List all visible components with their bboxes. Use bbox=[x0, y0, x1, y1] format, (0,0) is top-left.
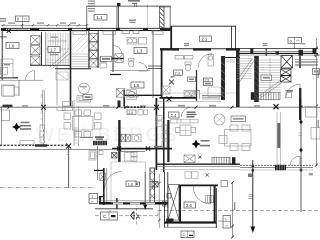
dim line x147 bottom-center bbox=[143, 172, 147, 210]
node X at 276,106 bbox=[274, 104, 279, 109]
sink unit kitchen bbox=[132, 134, 141, 142]
label box 1.5 bbox=[131, 82, 144, 88]
section arrow line x252.5 bbox=[251, 160, 256, 233]
boxes below 2.0 bbox=[138, 110, 148, 116]
label box 2.0 corridor bbox=[127, 110, 136, 115]
window pier 250-253 bbox=[250, 48, 253, 53]
svg-text:2.3: 2.3 bbox=[175, 71, 180, 75]
node X at 68.7,146 bbox=[66, 144, 71, 149]
grid line x301 bbox=[300, 98, 302, 212]
door arc 2.4 entry bbox=[181, 108, 191, 118]
hatched sill seg x35-68 bbox=[35, 144, 47, 146]
main internal wall x70.5 bbox=[70, 28, 72, 106]
window ticks on y107.2 x124-145 bbox=[124, 106, 145, 108]
right wing bottom band tick line bbox=[240, 164, 313, 166]
living bottom wall line3 bbox=[160, 169, 240, 171]
text smudge right wing band bbox=[309, 173, 313, 175]
living bottom wall y164.2 bbox=[157, 163, 240, 165]
right wing bottom band line2 bbox=[240, 167, 313, 169]
label box 1.2 bbox=[101, 56, 112, 61]
X box kitchen right bbox=[152, 182, 158, 188]
stair lower flight treads x237-252 bbox=[237, 59, 252, 79]
couch left room bbox=[1, 68, 8, 75]
bar strip right wing bbox=[277, 112, 281, 166]
left parapet ticked line y145.3 bbox=[0, 144, 68, 146]
svg-text:2.6: 2.6 bbox=[186, 203, 192, 208]
door arc bath top bbox=[198, 54, 212, 68]
bath top line y57.5 bbox=[221, 57, 240, 59]
radiator box on parapet bbox=[20, 141, 34, 145]
window pier 312-316 bbox=[313, 48, 317, 54]
dim line top-left bbox=[1, 24, 87, 26]
door jambs x196-197.5 bbox=[196, 70, 198, 101]
wall top main double bbox=[1, 27, 171, 29]
toilet bath bbox=[185, 62, 191, 71]
corridor wall y95.5 bbox=[125, 94, 161, 96]
label box 1.8 kitchen bbox=[126, 181, 136, 186]
hatched pier x275-286 y165-170 bbox=[275, 165, 286, 170]
label box 2.3 bbox=[174, 70, 183, 75]
small furniture right wing y66 bbox=[313, 69, 320, 75]
svg-text:1.1: 1.1 bbox=[97, 15, 103, 20]
stair right wall x45.8 bbox=[45, 32, 47, 66]
kitchen top wall y148.6 bbox=[112, 148, 172, 150]
stair right wall x299.5 upper bbox=[299, 56, 300, 68]
terrace line ticks bbox=[148, 5, 157, 8]
X box kitchen entry bbox=[100, 173, 106, 181]
label box C2 below room26 bbox=[181, 231, 194, 238]
stair return flight diagonals bbox=[72, 34, 88, 52]
right edge dim line bbox=[316, 38, 318, 166]
ticks x159 bbox=[158, 182, 161, 222]
kitchenette table bbox=[176, 125, 196, 136]
small box kitchen bbox=[99, 151, 103, 155]
stove X pair kitchen bbox=[121, 134, 130, 142]
stair left arrow bbox=[48, 40, 67, 42]
band mullion x266.2 bbox=[265, 48, 267, 56]
stair lower flight cut bbox=[237, 59, 254, 82]
node X top-left wall bbox=[7, 29, 11, 33]
fridge kitchen bbox=[89, 151, 96, 161]
bath wall y58.5 bbox=[110, 58, 124, 60]
bathtub bbox=[208, 87, 221, 97]
dim stack top-center bbox=[88, 1, 95, 12]
dark pier x251 y92-99 bbox=[251, 92, 254, 100]
window pier 300-303 bbox=[299, 50, 304, 56]
tiny text WD right bbox=[286, 90, 293, 92]
divider top tick bbox=[117, 3, 120, 6]
node X at 119,148.5 bbox=[117, 146, 121, 150]
dark parapet bar left bbox=[3, 105, 13, 107]
door arc bath 2.2 bbox=[191, 90, 200, 99]
washbasin pedestal bath bbox=[208, 55, 214, 67]
kitchen inner wall line y201.3 bbox=[99, 200, 168, 202]
living wall x161 y100-120 continues above, wall x167.5-169.5 bbox=[167, 120, 169, 162]
top band window lines bbox=[240, 50, 316, 53]
tiny text 5.07 stair bbox=[287, 91, 293, 92]
wall x236-240 bbox=[236, 49, 240, 107]
wall x19 bbox=[18, 80, 20, 96]
room26 bottom wall bbox=[164, 221, 216, 223]
exterior steps right of X box bbox=[295, 60, 318, 66]
kitchen left wall line x97 bbox=[96, 146, 98, 180]
wall left edge bbox=[1, 28, 3, 80]
room 2.1 top edge bbox=[171, 25, 236, 27]
hatch on stair left wall bbox=[254, 58, 259, 99]
grid drop x68.7 bbox=[68, 146, 70, 188]
node X at 148,148.5 bbox=[146, 146, 150, 150]
kitchen wall x94-96 bbox=[103, 168, 105, 205]
grid marks x301 bbox=[299, 133, 302, 136]
dining table left bbox=[73, 117, 94, 131]
door arc stair hall right bbox=[286, 84, 301, 99]
tiny text under 1.7 bbox=[50, 54, 59, 55]
grid line x43.5 dashed lower bbox=[43, 129, 45, 146]
wall x152 bbox=[152, 31, 154, 99]
LAYER: hatch bbox=[31, 7, 319, 220]
dim ticks x232.5 bbox=[231, 181, 234, 239]
right wing bottom band line3 bbox=[240, 169, 313, 171]
svg-text:2.0: 2.0 bbox=[128, 111, 133, 115]
tiny text pb1 bbox=[184, 43, 189, 46]
stair right wall x299.5 lower bbox=[299, 88, 301, 120]
tiny text FB right bbox=[314, 55, 320, 57]
tiny text ja00 stair left bbox=[51, 37, 58, 38]
label box 2.2 two-row bbox=[204, 78, 213, 86]
washer boxes 1.5 bbox=[127, 90, 137, 100]
svg-text:1.5: 1.5 bbox=[134, 83, 140, 88]
datum text N bbox=[128, 0, 140, 4]
small x mark living bbox=[199, 156, 202, 159]
band lower gray line y55.8 bbox=[240, 55, 316, 57]
stair left flight treads bbox=[48, 33, 68, 65]
dresser2 below left bbox=[14, 87, 19, 95]
kitchen hatch wall x144.8-150 bbox=[150, 168, 155, 204]
stair left mid rail bbox=[46, 48, 70, 50]
room26 right wall bbox=[214, 185, 216, 223]
room26 outer bottom line bbox=[164, 226, 216, 228]
door arc room26 bbox=[193, 186, 210, 204]
node X at 156.4,107.2 bbox=[154, 105, 159, 110]
level star marker center bbox=[192, 140, 211, 149]
shaft X-box column left bbox=[31, 36, 41, 66]
label box vertical left of kitchen wall bbox=[89, 194, 103, 204]
steps below y106 left bbox=[63, 102, 73, 111]
dim ticks top-left bbox=[2, 24, 88, 26]
stair right cut bbox=[259, 80, 281, 99]
svg-text:1.3: 1.3 bbox=[137, 48, 143, 53]
living bottom wall line2 bbox=[157, 165, 240, 167]
kitchen wall jog y196.5 bbox=[99, 196, 105, 198]
tiny text +000 living bbox=[187, 112, 197, 118]
stair right flight treads bbox=[259, 60, 281, 93]
tiny text pb2 bbox=[263, 43, 268, 46]
box with dot kitchen bbox=[135, 182, 140, 186]
node X at 43.5,106 bbox=[41, 105, 46, 110]
level text top-left edge bbox=[0, 18, 7, 38]
bath wall x113 bbox=[112, 31, 114, 73]
wardrobe boxes living left wall bbox=[162, 125, 167, 147]
window sill striped x212-230 bbox=[212, 157, 230, 164]
steps block room26 bbox=[206, 196, 214, 203]
cabinet 1.3 bbox=[139, 38, 147, 45]
shelf rects x156-162 bbox=[157, 116, 162, 127]
door arc kitchen top bbox=[105, 172, 122, 189]
sliding door leaf bbox=[277, 123, 280, 148]
shaft void X room26 bbox=[168, 185, 179, 221]
window striped seg x254-280 y92-100 bbox=[254, 92, 280, 100]
dash-dot line y187.7 bbox=[0, 187, 95, 189]
radiator y107 bbox=[57, 107, 65, 110]
label box 1.9 left bbox=[83, 95, 92, 100]
terrace left boundary x1.5 bbox=[1, 106, 3, 146]
kitchen window sill dark block bbox=[93, 141, 107, 145]
couch right edge bbox=[311, 128, 320, 140]
long line y106 bbox=[0, 106, 320, 108]
text smudge on section line bbox=[248, 174, 252, 178]
door arc corridor bbox=[127, 90, 139, 97]
radiator boxes bath top bbox=[175, 56, 193, 60]
band window lines x179-226 bbox=[179, 49, 226, 50]
terrace edge x74 bbox=[73, 100, 75, 146]
top wall window double lines bbox=[10, 28, 28, 31]
svg-text:▭: ▭ bbox=[91, 200, 94, 204]
svg-text:2.2: 2.2 bbox=[205, 78, 210, 82]
nodes on y106 bbox=[8, 106, 303, 109]
stair left cut line bbox=[50, 51, 70, 69]
wall x57 thin bbox=[56, 66, 58, 106]
wall seg y48-50 left of 2.1 bbox=[160, 48, 171, 50]
bottom wall window gaps bbox=[113, 202, 155, 204]
washbasin unit 1.3 bbox=[127, 38, 137, 45]
terrace column hatch x159-164 bbox=[160, 7, 165, 29]
kitchen closet line x106.5 bbox=[106, 168, 108, 202]
door arc 1.3 bbox=[139, 63, 148, 72]
dim texts above y106 bbox=[22, 105, 260, 107]
tiny text left-mid wall bbox=[4, 64, 10, 65]
label box 2.6 bbox=[184, 202, 196, 208]
tiny box room26 wall bbox=[167, 194, 171, 199]
wall B x156.4 bbox=[156, 98, 158, 170]
datum arrow marks top-center bbox=[134, 4, 136, 8]
big X box right top bbox=[281, 56, 293, 69]
sideboard right top bbox=[306, 107, 318, 118]
kitchen closet wall x116.9 bbox=[116, 198, 118, 209]
section marker A bottom bbox=[131, 212, 141, 222]
LAYER: stairs bbox=[46, 33, 281, 99]
closet corner rect bbox=[56, 72, 68, 80]
dim line x159 room26 left bbox=[158, 174, 160, 228]
grid nodes x301 bbox=[299, 120, 302, 153]
stair left hatch wall x254-259 bbox=[254, 56, 259, 102]
tiny text W bath bbox=[171, 76, 175, 78]
kitchen main wall x118.5-120.5 bbox=[118, 120, 120, 162]
counter kitchen low bbox=[125, 152, 138, 161]
right dim ticks bbox=[315, 47, 318, 167]
room 2.1 right wall double bbox=[232, 26, 236, 49]
tiny text 12b3 bbox=[154, 146, 162, 148]
shower square 2.3 bbox=[162, 86, 170, 94]
dim text 160 rotated bbox=[234, 202, 236, 210]
label box 2.2 bbox=[188, 77, 196, 82]
WD box right bbox=[286, 93, 292, 98]
door arc 1.2-1.3 bbox=[113, 46, 121, 54]
round table right wing bbox=[214, 114, 225, 125]
kitchen lower wall x95 bbox=[99, 196, 101, 204]
round table dim text bbox=[80, 86, 87, 87]
dim line x232.5 bottom bbox=[232, 182, 234, 238]
line y80 left bbox=[0, 79, 43, 81]
grid ticks x43.5 bbox=[41, 95, 43, 125]
corridor wall x123.75 bbox=[123, 90, 125, 106]
shaft wall x41.5 bbox=[41, 32, 43, 66]
tiny text pb right wing bbox=[301, 43, 306, 44]
right dim text bbox=[318, 70, 319, 128]
bath wall y99 bbox=[160, 97, 197, 99]
bath block left wall x161 bbox=[161, 49, 163, 98]
door arc terrace right bbox=[290, 156, 300, 166]
kitchen top wall second line bbox=[119, 150, 145, 152]
label box 12.5 right wing bbox=[231, 116, 246, 122]
door arc left bedroom bbox=[25, 71, 34, 81]
wall y137.5 x80-93 bbox=[80, 137, 93, 139]
dark pier x232.5 y157-164 bbox=[232, 157, 235, 165]
label box 0.5 top-left bbox=[16, 16, 30, 28]
star marker X bath bbox=[169, 80, 174, 85]
svg-text:1: 1 bbox=[91, 195, 93, 199]
small box right of room26 top bbox=[221, 181, 228, 187]
band dark segs x171-236 bbox=[171, 48, 240, 50]
wall y68.5 bbox=[55, 68, 91, 70]
terrace inner vertical x147.6 bbox=[147, 6, 149, 28]
stair left lower lines bbox=[46, 60, 69, 63]
svg-text:◠: ◠ bbox=[296, 38, 300, 43]
terrace 1.1 top edge bbox=[87, 5, 171, 7]
grid line x43.5 upper bbox=[43, 90, 44, 129]
hatch marks kitchen wall x144.8-150 bbox=[150, 170, 155, 199]
shower 1.5 bbox=[116, 89, 125, 98]
box circle room26 wall bbox=[163, 201, 169, 206]
svg-text:1.8: 1.8 bbox=[128, 182, 133, 186]
bed left room bbox=[1, 59, 13, 78]
svg-text:▭: ▭ bbox=[225, 224, 228, 228]
terrace white column x164-170 bbox=[164, 7, 170, 28]
label box 1.1 bbox=[94, 15, 107, 21]
bath window lines y97-99 bbox=[202, 97, 220, 99]
marks on x252.5 bbox=[249, 195, 253, 199]
wall seg y74.5 bbox=[110, 74, 121, 76]
svg-text:C: C bbox=[183, 232, 186, 237]
top band right wing lower line bbox=[236, 53, 318, 55]
svg-text:2.1: 2.1 bbox=[202, 37, 208, 42]
dashed section line y210.5 bbox=[95, 215, 158, 217]
kitchen inner floor outline bbox=[111, 162, 146, 203]
shower 1.3 bbox=[115, 54, 124, 63]
tiny text Hts kitchen bbox=[95, 136, 104, 139]
wall y65.5 bbox=[30, 64, 70, 66]
level star marker left bbox=[12, 122, 31, 132]
kitchen entry wall y170.4 bbox=[94, 169, 104, 171]
terrace left edge bbox=[86, 6, 88, 28]
svg-text:0: 0 bbox=[17, 18, 19, 22]
toilet 1.3 bbox=[129, 59, 135, 68]
bottom wall y205.5 bbox=[99, 202, 168, 205]
label box C bottom-center bbox=[101, 210, 118, 220]
shaft side walls bbox=[89, 31, 98, 69]
svg-text:A: A bbox=[136, 215, 140, 221]
beam line hall y93 bbox=[160, 92, 236, 94]
washbasin pair hall bbox=[184, 91, 195, 97]
room26 top wall bbox=[179, 184, 218, 186]
stair X boxes pair right bbox=[281, 69, 292, 82]
planter box left bbox=[1, 110, 9, 121]
dim text smudges top-left bbox=[8, 22, 76, 23]
label box 2.1 bbox=[200, 36, 212, 42]
node on grid x301 y170 bbox=[300, 169, 303, 172]
svg-text:▬: ▬ bbox=[189, 232, 193, 237]
svg-text:1: 1 bbox=[225, 218, 227, 222]
label box 2.7 stair bbox=[261, 75, 272, 81]
kitchenette counter strip bbox=[171, 119, 199, 123]
label box vertical right of room26 bbox=[218, 216, 231, 229]
services shaft X column x89-98 bbox=[89, 34, 97, 68]
band pier x275.5-279 bbox=[276, 51, 280, 55]
dark dot room26 bbox=[166, 219, 173, 224]
top band right wing upper line bbox=[160, 48, 318, 50]
stair return flight treads bbox=[72, 54, 88, 67]
chairs dining right bbox=[219, 125, 250, 151]
room26 left wall x180 bbox=[179, 185, 181, 223]
bath divider wall x221-225 bbox=[221, 56, 225, 100]
left parapet thin line y149.6 bbox=[0, 149, 112, 151]
pier at x118 y100 bbox=[118, 101, 121, 108]
bath cross walls y66/y68.5 bbox=[148, 66, 161, 69]
svg-text:WEINBERGS: WEINBERGS bbox=[36, 125, 179, 146]
svg-text:2.4: 2.4 bbox=[171, 113, 177, 118]
svg-text:1.7: 1.7 bbox=[50, 47, 56, 52]
door sill lines hall-stair bbox=[226, 60, 235, 62]
LAYER: doors bbox=[25, 46, 300, 204]
room 2.1 left wall bbox=[170, 26, 172, 49]
terrace divider x117.5 bbox=[117, 6, 119, 28]
shower box living bbox=[184, 155, 195, 163]
terrace edge x78.3 bbox=[77, 106, 79, 146]
terrace right thin edge bbox=[169, 6, 171, 26]
room26 outer wall x164.5-168 double bbox=[165, 172, 168, 227]
svg-text:1.6: 1.6 bbox=[9, 43, 15, 48]
grid marks x68.7 bbox=[67, 152, 69, 155]
kitchen outer line y209.2 bbox=[95, 208, 153, 210]
round table left bbox=[79, 83, 90, 94]
label box 0 top-right bbox=[288, 38, 302, 49]
shower X small bbox=[112, 153, 118, 159]
label box 1.7 bbox=[48, 47, 60, 53]
chairs dining left bbox=[64, 110, 101, 137]
bath wall y95.5 right part bbox=[202, 95, 222, 97]
line y70.5 bbox=[110, 70, 150, 72]
boxes room 1.2 bbox=[100, 57, 107, 68]
window boxes row top wall bbox=[73, 31, 163, 34]
couch strip left wall bbox=[40, 125, 45, 143]
dining table right bbox=[225, 130, 252, 147]
top wall pier fills bbox=[1, 28, 171, 31]
stair right rail bbox=[269, 58, 271, 95]
dresser below left bbox=[2, 85, 15, 96]
hall line y101.3 bbox=[158, 100, 221, 102]
fixture boxes above room26 bbox=[185, 172, 198, 179]
small x mark above room26 bbox=[206, 173, 209, 176]
wall top lower line bbox=[1, 30, 171, 32]
